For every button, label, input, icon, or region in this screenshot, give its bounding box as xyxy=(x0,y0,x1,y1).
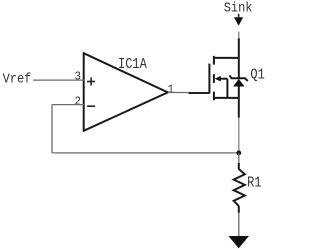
wire Q1 source pin down to node xyxy=(238,98,240,118)
label Q1 xyxy=(250,66,264,82)
wire Vref to pin 3 xyxy=(33,79,84,81)
svg-text:Sink: Sink xyxy=(224,0,253,16)
wire op-amp output to Q1 gate xyxy=(168,92,210,95)
svg-text:R1: R1 xyxy=(247,174,261,190)
op-amp IC1A xyxy=(84,53,168,131)
pin number 3 xyxy=(75,70,82,84)
body zener diode of Q1 xyxy=(230,75,248,86)
wire feedback horizontal to node xyxy=(52,152,239,154)
svg-text:IC1A: IC1A xyxy=(118,56,147,72)
label R1 xyxy=(247,174,261,190)
wire pin 2 xyxy=(52,104,84,106)
wire from Sink arrow to Q1 drain xyxy=(238,32,240,39)
wire node to resistor xyxy=(238,153,240,163)
wire resistor to ground xyxy=(238,206,240,213)
Sink supply arrow xyxy=(234,14,243,26)
pin number 2 xyxy=(75,95,82,109)
ground symbol xyxy=(228,236,249,248)
svg-text:1: 1 xyxy=(168,83,175,97)
svg-text:Q1: Q1 xyxy=(250,66,264,82)
transistor Q1 n-channel MOSFET xyxy=(189,56,239,100)
label IC1A xyxy=(118,56,147,72)
svg-text:2: 2 xyxy=(75,95,82,109)
label Vref xyxy=(3,71,32,87)
wire feedback vertical xyxy=(51,105,53,153)
svg-text:Vref: Vref xyxy=(3,71,32,87)
wire Q1 drain pin xyxy=(238,38,240,58)
node Sink label xyxy=(224,0,253,16)
junction node dot xyxy=(236,151,241,156)
resistor R1 xyxy=(234,169,245,206)
svg-text:3: 3 xyxy=(75,70,82,84)
pin number 1 xyxy=(168,83,175,97)
